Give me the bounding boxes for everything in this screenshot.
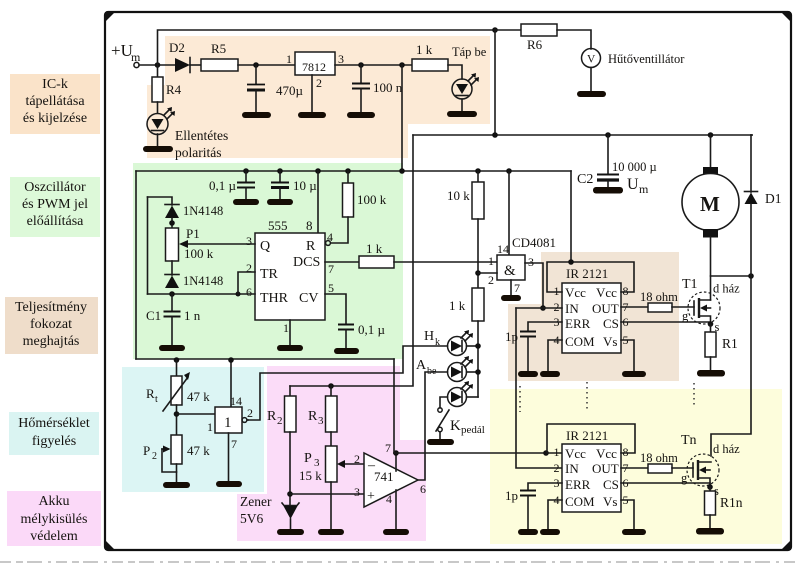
svg-text:47 k: 47 k: [187, 443, 210, 458]
svg-text:8: 8: [306, 218, 313, 233]
svg-text:3: 3: [338, 52, 344, 66]
svg-text:R: R: [306, 239, 316, 254]
capacitor 0,1u CV: [325, 294, 346, 324]
svg-text:D2: D2: [169, 40, 185, 55]
wire 100k to 555 R pin: [331, 217, 348, 243]
svg-text:Teljesítmény: Teljesítmény: [15, 300, 87, 315]
capacitor C1 1n: [171, 294, 173, 311]
svg-text:0,1 µ: 0,1 µ: [358, 322, 386, 337]
svg-text:1: 1: [554, 445, 560, 459]
svg-text:6: 6: [420, 482, 426, 496]
svg-text:Tn: Tn: [681, 433, 697, 448]
wire Abe to 741 output: [418, 372, 448, 480]
svg-text:1N4148: 1N4148: [183, 204, 223, 218]
colored region: temperature (cyan): [122, 367, 264, 492]
svg-text:3: 3: [528, 255, 534, 269]
wire THR row: [148, 293, 256, 295]
op-amp 741: [364, 453, 418, 507]
svg-text:g: g: [681, 471, 688, 485]
svg-text:ERR: ERR: [565, 316, 591, 331]
node junction +12V column: [399, 62, 405, 68]
svg-text:IC-k: IC-k: [42, 77, 68, 92]
svg-text:1N4148: 1N4148: [183, 274, 223, 288]
zener diode 5V6: [282, 503, 299, 506]
IC U4 IR2121 top: [562, 283, 621, 353]
resistor R2: [289, 386, 291, 396]
svg-text:C2: C2: [577, 172, 593, 187]
svg-text:Vs: Vs: [603, 334, 617, 349]
capacitor 1p top: [528, 322, 562, 331]
svg-text:555: 555: [268, 218, 288, 233]
wire Tn drain feed: [711, 276, 751, 456]
svg-text:+U: +U: [111, 41, 133, 60]
svg-text:7: 7: [514, 281, 520, 295]
svg-text:741: 741: [374, 469, 394, 484]
svg-text:C1: C1: [146, 308, 161, 323]
wire 555 Q to P1 wiper: [186, 243, 255, 245]
svg-text:4: 4: [386, 492, 392, 506]
svg-text:CD4081: CD4081: [512, 235, 556, 250]
border corner notch BR: [781, 540, 791, 550]
wire OUT pin7 bottom: [621, 467, 648, 469]
colored region: driver stage (tan): [508, 252, 679, 381]
colored region: battery protection (pink): [237, 366, 426, 541]
resistor 18 ohm top: [648, 303, 672, 312]
svg-text:470µ: 470µ: [276, 83, 304, 98]
svg-text:előállítása: előállítása: [27, 214, 85, 229]
svg-text:Vs: Vs: [603, 494, 617, 509]
svg-text:K: K: [450, 418, 461, 434]
svg-text:8: 8: [623, 445, 629, 459]
wire +Um down column: [290, 135, 413, 386]
wire +12V rail y=171: [136, 170, 571, 172]
svg-text:t: t: [155, 394, 158, 405]
wire comparator out: [247, 419, 248, 421]
svg-text:2: 2: [554, 461, 560, 475]
svg-text:3: 3: [354, 485, 360, 499]
svg-text:fokozat: fokozat: [30, 317, 72, 332]
svg-text:mélykisülés: mélykisülés: [21, 512, 88, 527]
svg-text:15 k: 15 k: [299, 468, 322, 483]
wire Hk to inverter output: [248, 346, 448, 420]
diode D1: [750, 135, 752, 192]
IC 555: [255, 233, 325, 320]
svg-text:3: 3: [318, 415, 324, 427]
svg-text:DCS: DCS: [293, 255, 320, 270]
LED Ellentetes polaritas: [157, 102, 159, 113]
node junction bus/motor: [708, 132, 714, 138]
svg-text:M: M: [700, 192, 720, 216]
svg-text:polaritás: polaritás: [175, 145, 222, 160]
capacitor 100n: [360, 65, 362, 83]
wire 1k to AND pin1: [394, 261, 497, 263]
svg-text:2: 2: [277, 415, 283, 427]
svg-text:figyelés: figyelés: [32, 434, 76, 449]
potentiometer P3 15k: [330, 432, 332, 446]
svg-text:és kijelzése: és kijelzése: [23, 111, 87, 126]
svg-text:2: 2: [554, 300, 560, 314]
svg-text:7812: 7812: [302, 60, 326, 74]
svg-text:CV: CV: [299, 291, 318, 306]
svg-text:10 000 µ: 10 000 µ: [612, 160, 657, 174]
svg-text:10 µ: 10 µ: [293, 178, 317, 193]
wire rail corner down to IR2121 Vcc: [570, 171, 572, 262]
LED Tap be: [452, 79, 472, 99]
svg-text:D1: D1: [765, 191, 782, 206]
diode D2: [175, 58, 190, 72]
svg-text:COM: COM: [565, 494, 595, 509]
svg-text:7: 7: [385, 441, 391, 455]
svg-text:R: R: [146, 386, 155, 401]
border corner notch TR: [781, 12, 791, 22]
svg-text:1: 1: [488, 254, 494, 268]
svg-text:CS: CS: [603, 477, 619, 492]
wire green left rail: [135, 171, 137, 359]
wire R2 bottom / zener node: [289, 432, 291, 505]
svg-text:18 ohm: 18 ohm: [640, 451, 678, 465]
wire IN pin2: [516, 307, 562, 309]
capacitor 0,1u osc: [243, 168, 249, 174]
svg-text:R6: R6: [527, 37, 543, 52]
resistor 1k LED chain: [472, 288, 484, 321]
svg-text:Hőmérséklet: Hőmérséklet: [18, 416, 90, 431]
svg-text:8: 8: [623, 284, 629, 298]
wire 7812 pin2 to ground: [311, 75, 313, 112]
capacitor C2 10000u: [607, 135, 609, 174]
svg-text:és PWM jel: és PWM jel: [22, 197, 88, 212]
node junction D1 bottom: [748, 273, 754, 279]
wire 7812 out: [335, 64, 412, 66]
svg-text:18 ohm: 18 ohm: [640, 290, 678, 304]
resistor 100k osc: [345, 168, 351, 174]
fan Hutoventillator: [557, 30, 591, 49]
svg-text:R: R: [267, 409, 277, 424]
dotted separator 3: [693, 383, 695, 408]
svg-text:CS: CS: [603, 316, 619, 331]
svg-text:47 k: 47 k: [187, 389, 210, 404]
wire LED column: [477, 321, 479, 397]
cropped caption text line below figure: [0, 561, 800, 563]
svg-text:T1: T1: [682, 277, 698, 292]
svg-text:3: 3: [246, 234, 252, 248]
resistor 1k DCS out: [325, 261, 359, 263]
capacitor 10u osc: [277, 168, 283, 174]
svg-text:P1: P1: [186, 226, 200, 241]
resistor R3: [328, 383, 334, 389]
wire R5 to 7812: [238, 64, 295, 66]
resistor R1n: [709, 487, 711, 491]
svg-text:d ház: d ház: [713, 282, 740, 296]
wire Vcc loop top chip: [547, 262, 634, 292]
svg-text:P: P: [304, 451, 312, 466]
svg-text:100 k: 100 k: [357, 192, 387, 207]
svg-text:Vcc: Vcc: [565, 285, 586, 300]
wire Vcc loop bottom chip: [547, 424, 635, 453]
svg-text:Táp be: Táp be: [452, 45, 487, 59]
svg-text:IR 2121: IR 2121: [566, 266, 608, 281]
svg-text:COM: COM: [565, 334, 595, 349]
svg-text:m: m: [639, 182, 649, 196]
svg-text:2: 2: [488, 273, 494, 287]
svg-text:1: 1: [554, 284, 560, 298]
wire Rt to P2: [176, 405, 178, 435]
svg-text:&: &: [504, 263, 516, 279]
svg-text:1: 1: [286, 52, 292, 66]
svg-text:Vcc: Vcc: [596, 285, 617, 300]
diode 1N4148 lower: [171, 261, 173, 275]
resistor R6: [495, 29, 521, 31]
node junction rail/AND14: [506, 168, 512, 174]
node junction rail/7812 riser: [399, 168, 405, 174]
svg-text:P: P: [143, 443, 150, 458]
node junction AND pin2: [475, 270, 481, 276]
border corner notch BL: [105, 540, 115, 550]
svg-text:IN: IN: [565, 461, 579, 476]
wire drain node to D1 column: [711, 275, 752, 277]
svg-text:100 k: 100 k: [184, 246, 214, 261]
wire node to 741 pin3: [290, 493, 364, 495]
node junction rail/10k: [475, 168, 481, 174]
wire P3 wiper to 741 pin2: [343, 463, 364, 465]
svg-text:2: 2: [316, 76, 322, 90]
wire COM pin4 ground: [548, 340, 562, 371]
svg-text:7: 7: [231, 437, 237, 451]
wire IN riser down to bottom chip: [516, 308, 562, 468]
wire 555 pin1 ground: [289, 320, 291, 345]
wire OUT pin7: [621, 306, 648, 308]
wire P2 to ground: [176, 464, 178, 482]
svg-text:2: 2: [152, 451, 157, 462]
potentiometer P2 47k: [171, 435, 182, 464]
svg-text:OUT: OUT: [592, 461, 619, 476]
svg-text:7: 7: [328, 262, 334, 276]
resistor 10k: [477, 171, 479, 182]
node junction +Um/R4: [155, 62, 161, 68]
node junction bus/495: [492, 132, 498, 138]
wire TR jog: [238, 272, 255, 294]
wire D2 to R5: [190, 64, 201, 66]
svg-text:5: 5: [328, 281, 334, 295]
node junction top wire / bus riser: [492, 27, 498, 33]
svg-text:meghajtás: meghajtás: [23, 334, 80, 349]
node junction 470u: [253, 62, 259, 68]
wire +12V rail to pin7 and bottom IR2121: [393, 359, 395, 453]
left label box: Homerseklet: [9, 412, 99, 455]
wire green bottom +12V rail: [136, 358, 394, 360]
svg-text:IR 2121: IR 2121: [566, 428, 608, 443]
IC U5 IR2121 bottom: [562, 444, 621, 512]
svg-text:14: 14: [497, 242, 509, 256]
svg-text:–: –: [367, 458, 376, 473]
diode 1N4148 upper: [148, 197, 173, 205]
svg-text:g: g: [682, 309, 689, 323]
dotted separator 2: [586, 382, 588, 410]
wire Vs pin5 ground: [621, 340, 634, 371]
svg-text:100 n: 100 n: [373, 80, 403, 95]
svg-text:R: R: [308, 409, 318, 424]
resistor 18 ohm bottom: [648, 464, 672, 473]
svg-text:OUT: OUT: [592, 301, 619, 316]
wire Vs pin5 bottom ground: [621, 500, 634, 529]
svg-text:R1: R1: [722, 336, 738, 351]
comparator U3 "1": [230, 360, 232, 407]
comparator output bubble: [242, 418, 247, 423]
svg-text:R1n: R1n: [720, 495, 743, 510]
wire 10k down: [477, 219, 479, 288]
capacitor 1p bottom: [528, 483, 562, 490]
svg-text:ERR: ERR: [565, 477, 591, 492]
wire COM bottom ground: [548, 500, 562, 529]
svg-text:1: 1: [283, 321, 289, 335]
svg-text:Akku: Akku: [38, 494, 69, 509]
svg-text:5V6: 5V6: [240, 511, 263, 526]
wire node to comparator pin1: [177, 413, 216, 415]
dotted separator 1: [519, 386, 521, 412]
wire riser x495 to bus: [494, 30, 496, 135]
wire +Um to D2: [139, 64, 175, 66]
colored region: oscillator (green): [133, 163, 403, 359]
svg-text:+: +: [367, 489, 375, 504]
wire +Um bus y=135: [413, 134, 752, 136]
left label box: IC-k tapellatasa: [5, 74, 101, 546]
corner bus right down to D1: [751, 134, 752, 136]
wire 555 pin8 riser: [315, 168, 321, 174]
svg-text:1: 1: [224, 415, 232, 431]
colored region: IC power supply (peach): [147, 36, 490, 158]
svg-text:Vcc: Vcc: [596, 446, 617, 461]
svg-text:Zener: Zener: [240, 494, 272, 509]
svg-text:IN: IN: [565, 301, 579, 316]
colored region: bottom driver (yellow): [490, 389, 782, 544]
wire AND pin7 ground: [510, 280, 512, 295]
svg-text:Vcc: Vcc: [565, 446, 586, 461]
svg-text:pedál: pedál: [461, 424, 485, 436]
motor M: [710, 135, 712, 168]
wire comparator pin7 ground: [228, 433, 230, 481]
svg-text:Ellentétes: Ellentétes: [175, 128, 228, 143]
capacitor 470u electrolytic: [255, 65, 257, 84]
svg-text:Hűtőventillátor: Hűtőventillátor: [608, 52, 685, 66]
svg-text:tápellátása: tápellátása: [25, 94, 85, 109]
svg-text:6: 6: [246, 285, 252, 299]
svg-text:1 k: 1 k: [449, 298, 466, 313]
switch K pedal: [440, 397, 448, 408]
wire motor bottom to T1 drain: [710, 237, 712, 300]
svg-text:14: 14: [230, 394, 242, 408]
wire loop left vertical: [147, 197, 149, 294]
svg-text:R5: R5: [211, 41, 226, 56]
wire 741 pin7: [395, 453, 397, 471]
resistor R1: [710, 324, 712, 332]
svg-text:2: 2: [246, 261, 252, 275]
svg-text:A: A: [416, 358, 427, 373]
svg-text:H: H: [424, 329, 434, 344]
left label box: Oszcillator: [10, 177, 100, 237]
svg-text:védelem: védelem: [30, 529, 78, 544]
regulator U2 7812: [295, 52, 335, 75]
svg-text:V: V: [587, 54, 596, 66]
svg-text:1: 1: [207, 420, 213, 434]
node junction bus/C2: [605, 132, 611, 138]
svg-text:d ház: d ház: [713, 442, 740, 456]
svg-text:1 k: 1 k: [366, 241, 383, 256]
svg-text:2: 2: [354, 452, 360, 466]
wire CS pin6: [621, 321, 711, 323]
resistor R5: [201, 59, 238, 71]
wire AND pin2: [478, 272, 497, 274]
left label box: Teljesitmeny: [5, 297, 98, 354]
svg-text:Oszcillátor: Oszcillátor: [24, 180, 86, 195]
resistor R4: [157, 65, 159, 77]
svg-text:1p: 1p: [505, 488, 518, 503]
svg-text:U: U: [627, 176, 639, 193]
svg-text:1 k: 1 k: [416, 42, 433, 57]
resistor 1k (Tap be): [412, 59, 448, 71]
svg-text:0,1 µ: 0,1 µ: [209, 178, 237, 193]
svg-text:R4: R4: [166, 82, 182, 97]
wire +12V riser down to rail: [401, 65, 403, 171]
LED K pedal: [448, 388, 467, 407]
pin4 R inversion bubble: [326, 241, 331, 246]
wire diode to P1: [171, 218, 173, 228]
wire top rail y=30 from +Um column: [158, 30, 496, 65]
svg-text:THR: THR: [260, 291, 289, 306]
thermistor Rt 47k: [174, 357, 180, 363]
svg-text:10 k: 10 k: [447, 188, 470, 203]
svg-text:1p: 1p: [505, 329, 518, 344]
potentiometer P1 100k: [166, 228, 179, 261]
svg-text:2: 2: [247, 406, 253, 420]
svg-text:1 n: 1 n: [184, 308, 201, 323]
wire 1k to LED: [448, 65, 462, 79]
node junction 100n: [358, 62, 364, 68]
left label box: Akku: [7, 491, 101, 546]
svg-text:TR: TR: [260, 267, 279, 282]
wire AND out to IR2121 IN: [525, 263, 543, 308]
wire CS pin6 bottom: [621, 483, 710, 487]
svg-text:Q: Q: [260, 239, 270, 254]
wire 741 pin4 ground: [395, 490, 397, 529]
